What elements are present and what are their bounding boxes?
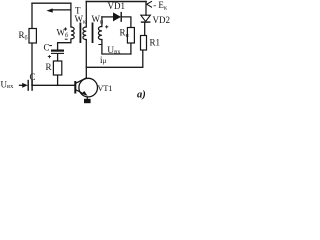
wire Wk lead top bbox=[85, 2, 87, 28]
capacitor C input bbox=[28, 80, 32, 91]
wire Rn bottom bbox=[130, 43, 132, 54]
svg-text:iμ: iμ bbox=[100, 55, 107, 65]
svg-text:C: C bbox=[44, 43, 50, 53]
label C plus bbox=[48, 55, 51, 58]
transformer winding Wn bbox=[98, 27, 102, 40]
wire VD1 cathode to Rn bbox=[121, 17, 131, 28]
label Wn minus bbox=[98, 44, 101, 46]
label C minus bbox=[49, 45, 52, 47]
label Wn plus bbox=[105, 25, 108, 28]
wire input arrow line bbox=[20, 84, 24, 86]
diode VD2 bbox=[141, 15, 151, 22]
svg-text:Uвх: Uвх bbox=[1, 79, 15, 90]
transformer winding Wk bbox=[83, 27, 86, 40]
svg-text:Wн: Wн bbox=[92, 14, 105, 26]
diode VD1 bbox=[113, 12, 121, 22]
resistor Rb bbox=[29, 29, 36, 44]
svg-text:R1: R1 bbox=[150, 38, 161, 48]
svg-text:Wк: Wк bbox=[75, 14, 87, 26]
ground bar bbox=[84, 99, 91, 103]
wire R to base line bbox=[57, 75, 59, 85]
wire VD1 anode lead bbox=[102, 16, 113, 18]
wire VD2 to R1 bbox=[144, 22, 146, 35]
svg-text:а): а) bbox=[137, 90, 146, 101]
resistor R bbox=[53, 61, 61, 75]
svg-text:VT1: VT1 bbox=[98, 84, 113, 93]
svg-text:VD2: VD2 bbox=[153, 15, 171, 25]
label Wb plus bbox=[64, 27, 67, 30]
wire top rail to -Ek bbox=[86, 1, 146, 3]
wire C to R bbox=[57, 54, 59, 61]
wire Wn top lead bbox=[101, 17, 103, 27]
current arrow top-left bbox=[46, 8, 71, 12]
wire left rail bbox=[31, 3, 33, 85]
transistor VT1 bbox=[75, 78, 97, 99]
svg-text:VD1: VD1 bbox=[108, 1, 126, 11]
svg-text:Uвх: Uвх bbox=[107, 46, 121, 56]
terminal -Ek arrowhead bbox=[147, 1, 152, 7]
wire Wk lead bottom / collector bbox=[85, 40, 87, 78]
transformer core bbox=[80, 23, 92, 44]
svg-text:C: C bbox=[30, 72, 36, 82]
wire output loop bottom bbox=[102, 40, 131, 55]
label Wb minus bbox=[65, 38, 68, 40]
transformer winding Wb bbox=[71, 27, 74, 39]
wire R1 bottom loop bbox=[86, 50, 143, 67]
resistor Rn bbox=[127, 28, 134, 44]
svg-text:- Eк: - Eк bbox=[153, 0, 168, 12]
input arrowhead bbox=[22, 83, 28, 88]
capacitor C base chain bbox=[51, 51, 64, 54]
wire top-left rail bbox=[32, 2, 71, 4]
wire VD2 chain bbox=[145, 2, 147, 16]
resistor R1 bbox=[141, 36, 147, 51]
wire Wb bottom lead to C bbox=[58, 39, 71, 50]
svg-text:Rб: Rб bbox=[19, 30, 28, 42]
svg-text:R: R bbox=[46, 62, 52, 72]
wire base line bbox=[32, 84, 75, 86]
wire Wb top lead bbox=[70, 3, 72, 27]
